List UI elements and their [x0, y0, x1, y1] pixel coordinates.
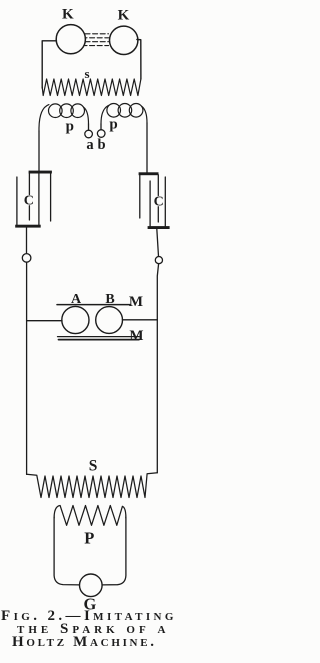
wire: left rail to roller A: [27, 320, 62, 322]
discharge ball K (left): [56, 25, 85, 54]
battery G: [80, 574, 103, 597]
wire: right capacitor to node: [157, 229, 159, 257]
svg-text:A: A: [71, 292, 82, 307]
capacitor C (right, Leyden-jar style plates): [139, 172, 170, 229]
roller B: [96, 307, 123, 334]
svg-text:K: K: [62, 7, 74, 23]
wire: right p coil down to capacitor (right): [146, 123, 148, 172]
primary coil p (right): [101, 104, 147, 125]
discharge ball K (right): [110, 26, 138, 54]
caption: Fig. 2. - Imitating the Spark of a Holtz Machine.: [0, 610, 200, 649]
node circle (left rail): [22, 254, 31, 263]
svg-text:b: b: [98, 137, 106, 153]
svg-text:K: K: [118, 7, 130, 23]
spark gap dashes between K balls: [85, 33, 109, 35]
wire: left p coil down to capacitor (left): [38, 131, 40, 171]
svg-text:M: M: [129, 328, 143, 344]
plate M (bottom, double line): [58, 336, 140, 338]
svg-text:p: p: [109, 117, 117, 133]
svg-text:s: s: [84, 66, 89, 81]
right rail wire: [157, 264, 158, 473]
primary coil p (left): [39, 104, 89, 131]
terminal a (stub + circle): [88, 124, 90, 130]
primary coil P (zigzag top): [54, 506, 126, 526]
wire: roller B to right rail: [122, 319, 157, 321]
plate M (top): [57, 304, 131, 306]
node circle (right rail): [155, 257, 162, 264]
svg-text:C: C: [24, 194, 34, 209]
svg-text:a: a: [86, 137, 94, 153]
svg-text:M: M: [129, 294, 143, 310]
secondary coil s (zigzag winding): [42, 79, 141, 96]
svg-text:S: S: [89, 458, 98, 475]
wire: left capacitor to node: [26, 227, 28, 253]
capacitor C (left, Leyden-jar style plates): [15, 171, 52, 228]
secondary coil S (big zigzag): [27, 473, 158, 498]
wire: right K ball down right rail: [137, 40, 141, 80]
wire: left K ball to left rail: [42, 41, 56, 88]
svg-text:P: P: [84, 528, 94, 547]
wire: P coil left side: [54, 517, 79, 585]
svg-text:B: B: [105, 292, 114, 307]
left rail wire: [26, 262, 28, 474]
roller A: [62, 306, 89, 333]
terminal b (stub + circle): [100, 124, 102, 130]
svg-text:C: C: [154, 195, 164, 210]
svg-text:p: p: [66, 119, 74, 135]
wire: P coil right side: [103, 517, 126, 585]
